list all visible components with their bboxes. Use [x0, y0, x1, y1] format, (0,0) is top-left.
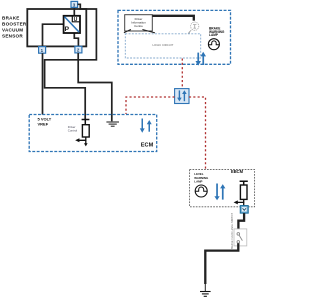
label 5 VOLT VREF — [38, 117, 52, 127]
wire pin2 internal — [74, 33, 78, 46]
label BRAKE WARNING LAMP — [209, 26, 225, 37]
indicator lamp in cluster — [189, 22, 199, 33]
serial data arrows in ECM — [140, 119, 152, 133]
svg-text:EBCM: EBCM — [231, 169, 244, 174]
wire pin1 to ECM 5V — [42, 53, 44, 114]
pin 3 — [71, 1, 78, 7]
gateway connector box — [175, 89, 189, 104]
label BRAKE BOOSTER VACUUM SENSOR — [2, 15, 27, 38]
wire pin2 to ECM ground — [78, 53, 112, 121]
pin 1 — [39, 47, 46, 54]
sensor outer box — [27, 9, 86, 46]
supply bar in EBCM — [240, 181, 248, 185]
wire pin3 to ECM driver — [45, 4, 97, 119]
logic circuit box — [125, 34, 200, 58]
ground in ECM — [106, 122, 119, 126]
svg-text:BRAKE: BRAKE — [2, 15, 20, 20]
EBCM box — [190, 169, 255, 206]
resistor in EBCM — [240, 185, 247, 199]
svg-text:VREF: VREF — [38, 122, 49, 127]
svg-text:LAMP: LAMP — [209, 33, 219, 37]
cluster serial data arrows — [196, 52, 207, 66]
brake fluid level switch box — [234, 229, 247, 246]
svg-text:U: U — [74, 17, 78, 23]
level warning lamp — [195, 185, 207, 197]
driver output arrow — [78, 137, 86, 140]
label LEVEL WARNING LAMP — [194, 172, 209, 183]
svg-text:SENSOR: SENSOR — [2, 34, 23, 39]
serial data red line cluster to gateway — [181, 59, 183, 89]
serial data arrows in EBCM — [214, 184, 225, 201]
svg-text:P: P — [65, 26, 70, 33]
label Driver Control — [68, 125, 78, 132]
svg-text:BOOSTER: BOOSTER — [2, 21, 27, 26]
wire switch to ground — [205, 243, 238, 284]
wire pin1 internal — [43, 24, 64, 46]
wire connector to switch — [238, 213, 244, 233]
wire DIC to indicator — [152, 16, 194, 21]
pin 2 — [75, 46, 82, 53]
svg-text:Control: Control — [68, 129, 78, 133]
svg-text:LAMP: LAMP — [194, 180, 202, 184]
serial data red line gateway to EBCM — [189, 97, 206, 169]
label Driver Information Centre — [131, 17, 146, 28]
EBCM driver output arrow — [237, 199, 244, 202]
DIC callout flare lines — [124, 30, 155, 33]
svg-text:LOGIC CIRCUIT: LOGIC CIRCUIT — [153, 43, 174, 47]
instrument cluster box — [118, 10, 231, 64]
inline connector — [240, 206, 248, 214]
svg-text:BRAKE FLUID LEVEL SWITCH: BRAKE FLUID LEVEL SWITCH — [231, 213, 234, 249]
svg-text:ECM: ECM — [141, 143, 154, 149]
serial data red line gateway to ECM — [126, 97, 175, 114]
supply bar in ECM — [82, 120, 90, 125]
wire EBCM to connector — [243, 202, 245, 206]
ground G1 — [200, 292, 211, 297]
ECM box — [29, 115, 157, 152]
driver resistor in ECM — [82, 125, 89, 137]
pressure sensor element U1 — [64, 16, 80, 33]
svg-text:VACUUM: VACUUM — [2, 28, 23, 33]
svg-text:Centre: Centre — [134, 24, 143, 28]
brake warning lamp — [208, 39, 219, 50]
wire pin3 internal — [73, 7, 75, 16]
switch S1 — [237, 233, 242, 244]
driver information centre box — [125, 15, 153, 31]
